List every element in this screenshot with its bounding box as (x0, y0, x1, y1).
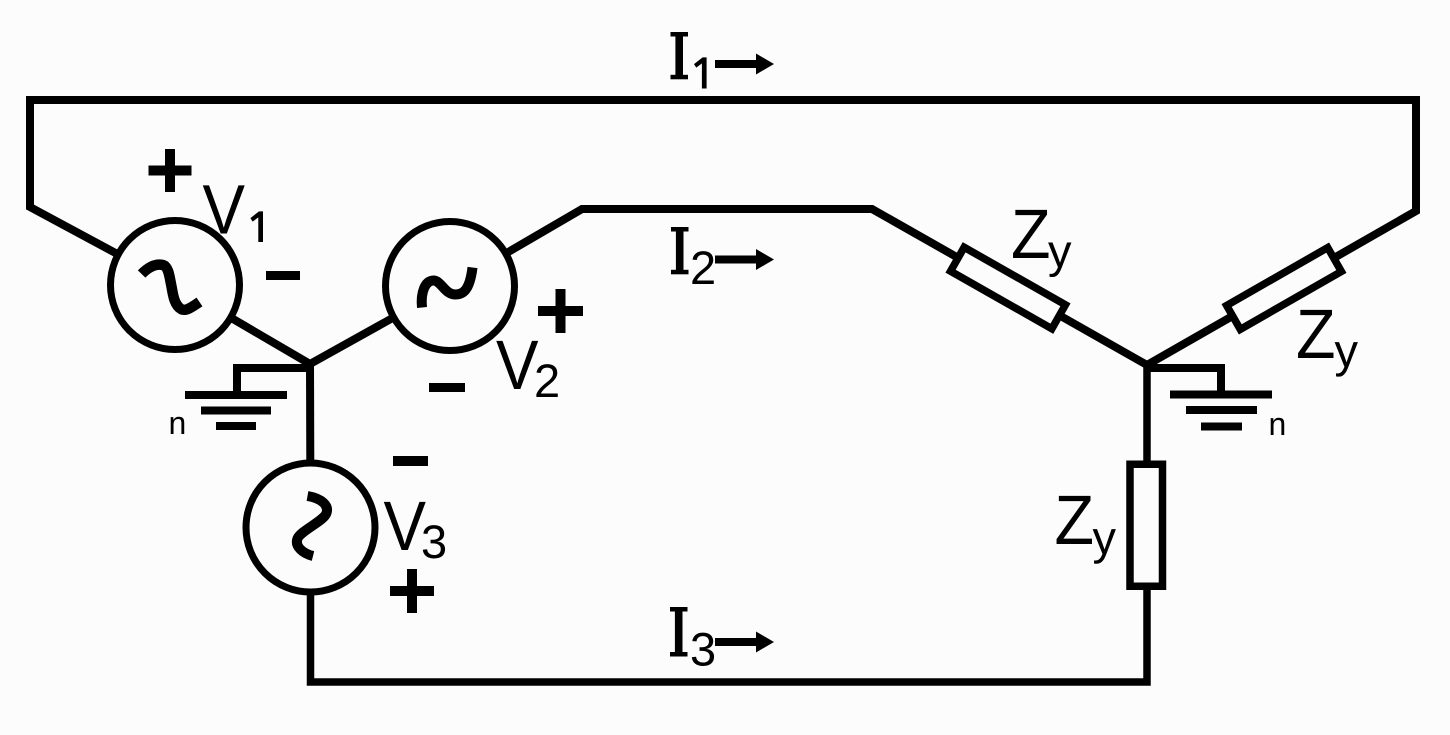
wire: V1 to neutral node (175, 285, 310, 364)
wire: neutral node down to V3 (306, 364, 315, 527)
wire: V3 down to bottom line C and up through Zy to right node (311, 365, 1148, 682)
Zy label (phase C) (1057, 496, 1092, 544)
ground (right) neutral tap (1147, 368, 1221, 392)
I1 arrow (715, 54, 774, 75)
impedance Zy (phase B, diagonal left) body (951, 247, 1066, 328)
V1 label (203, 185, 245, 233)
ground (left) bar 1 (185, 391, 287, 399)
V2 minus sign (429, 383, 465, 392)
ac source V1 sine wave (142, 265, 200, 310)
ac source V2 sine wave (422, 268, 473, 308)
ac source V3 circle (246, 463, 375, 592)
I1 subscript 1 (694, 57, 707, 88)
ac source V1 circle (111, 221, 240, 350)
V1 subscript 1 (250, 211, 263, 242)
Zy label (phase A) (1298, 310, 1333, 358)
I3 subscript 3 (692, 633, 714, 666)
ac source V3 sine wave (297, 496, 327, 556)
V1 minus sign (266, 271, 300, 280)
node n label (right) (1271, 418, 1285, 435)
V3 subscript 3 (423, 525, 445, 558)
V3 minus sign (393, 456, 428, 466)
ground (left) neutral tap (237, 368, 310, 392)
wire: V2 up to middle line B and diagonal to right node (450, 209, 1147, 365)
I3 arrow (715, 632, 774, 653)
wire: neutral node to V2 (310, 286, 450, 364)
V2 label (496, 341, 538, 389)
current label I2 (671, 227, 689, 274)
node n label (left) (171, 417, 185, 434)
impedance Zy (phase A, diagonal right) body (1227, 248, 1342, 330)
ac source V2 circle (386, 222, 515, 351)
ground (right) bar 3 (1201, 423, 1242, 431)
I2 arrow (715, 249, 774, 270)
V3 plus sign (390, 569, 434, 613)
ground (right) bar 1 (1170, 391, 1272, 399)
ground (left) bar 2 (201, 407, 271, 415)
V2 plus sign (538, 289, 583, 333)
wire: top line A from V1 drop, across top, down right side to right node (30, 100, 1416, 365)
ground (left) bar 3 (216, 422, 256, 430)
ground (right) bar 2 (1186, 406, 1257, 414)
V1 plus sign (149, 149, 192, 192)
impedance Zy (phase C, vertical) body (1130, 464, 1163, 586)
I2 subscript 2 (692, 251, 713, 284)
V2 subscript 2 (536, 364, 557, 397)
current label I3 (670, 607, 688, 657)
current label I1 (671, 32, 689, 79)
V3 label (384, 502, 426, 550)
Zy label (phase B) (1013, 210, 1048, 258)
